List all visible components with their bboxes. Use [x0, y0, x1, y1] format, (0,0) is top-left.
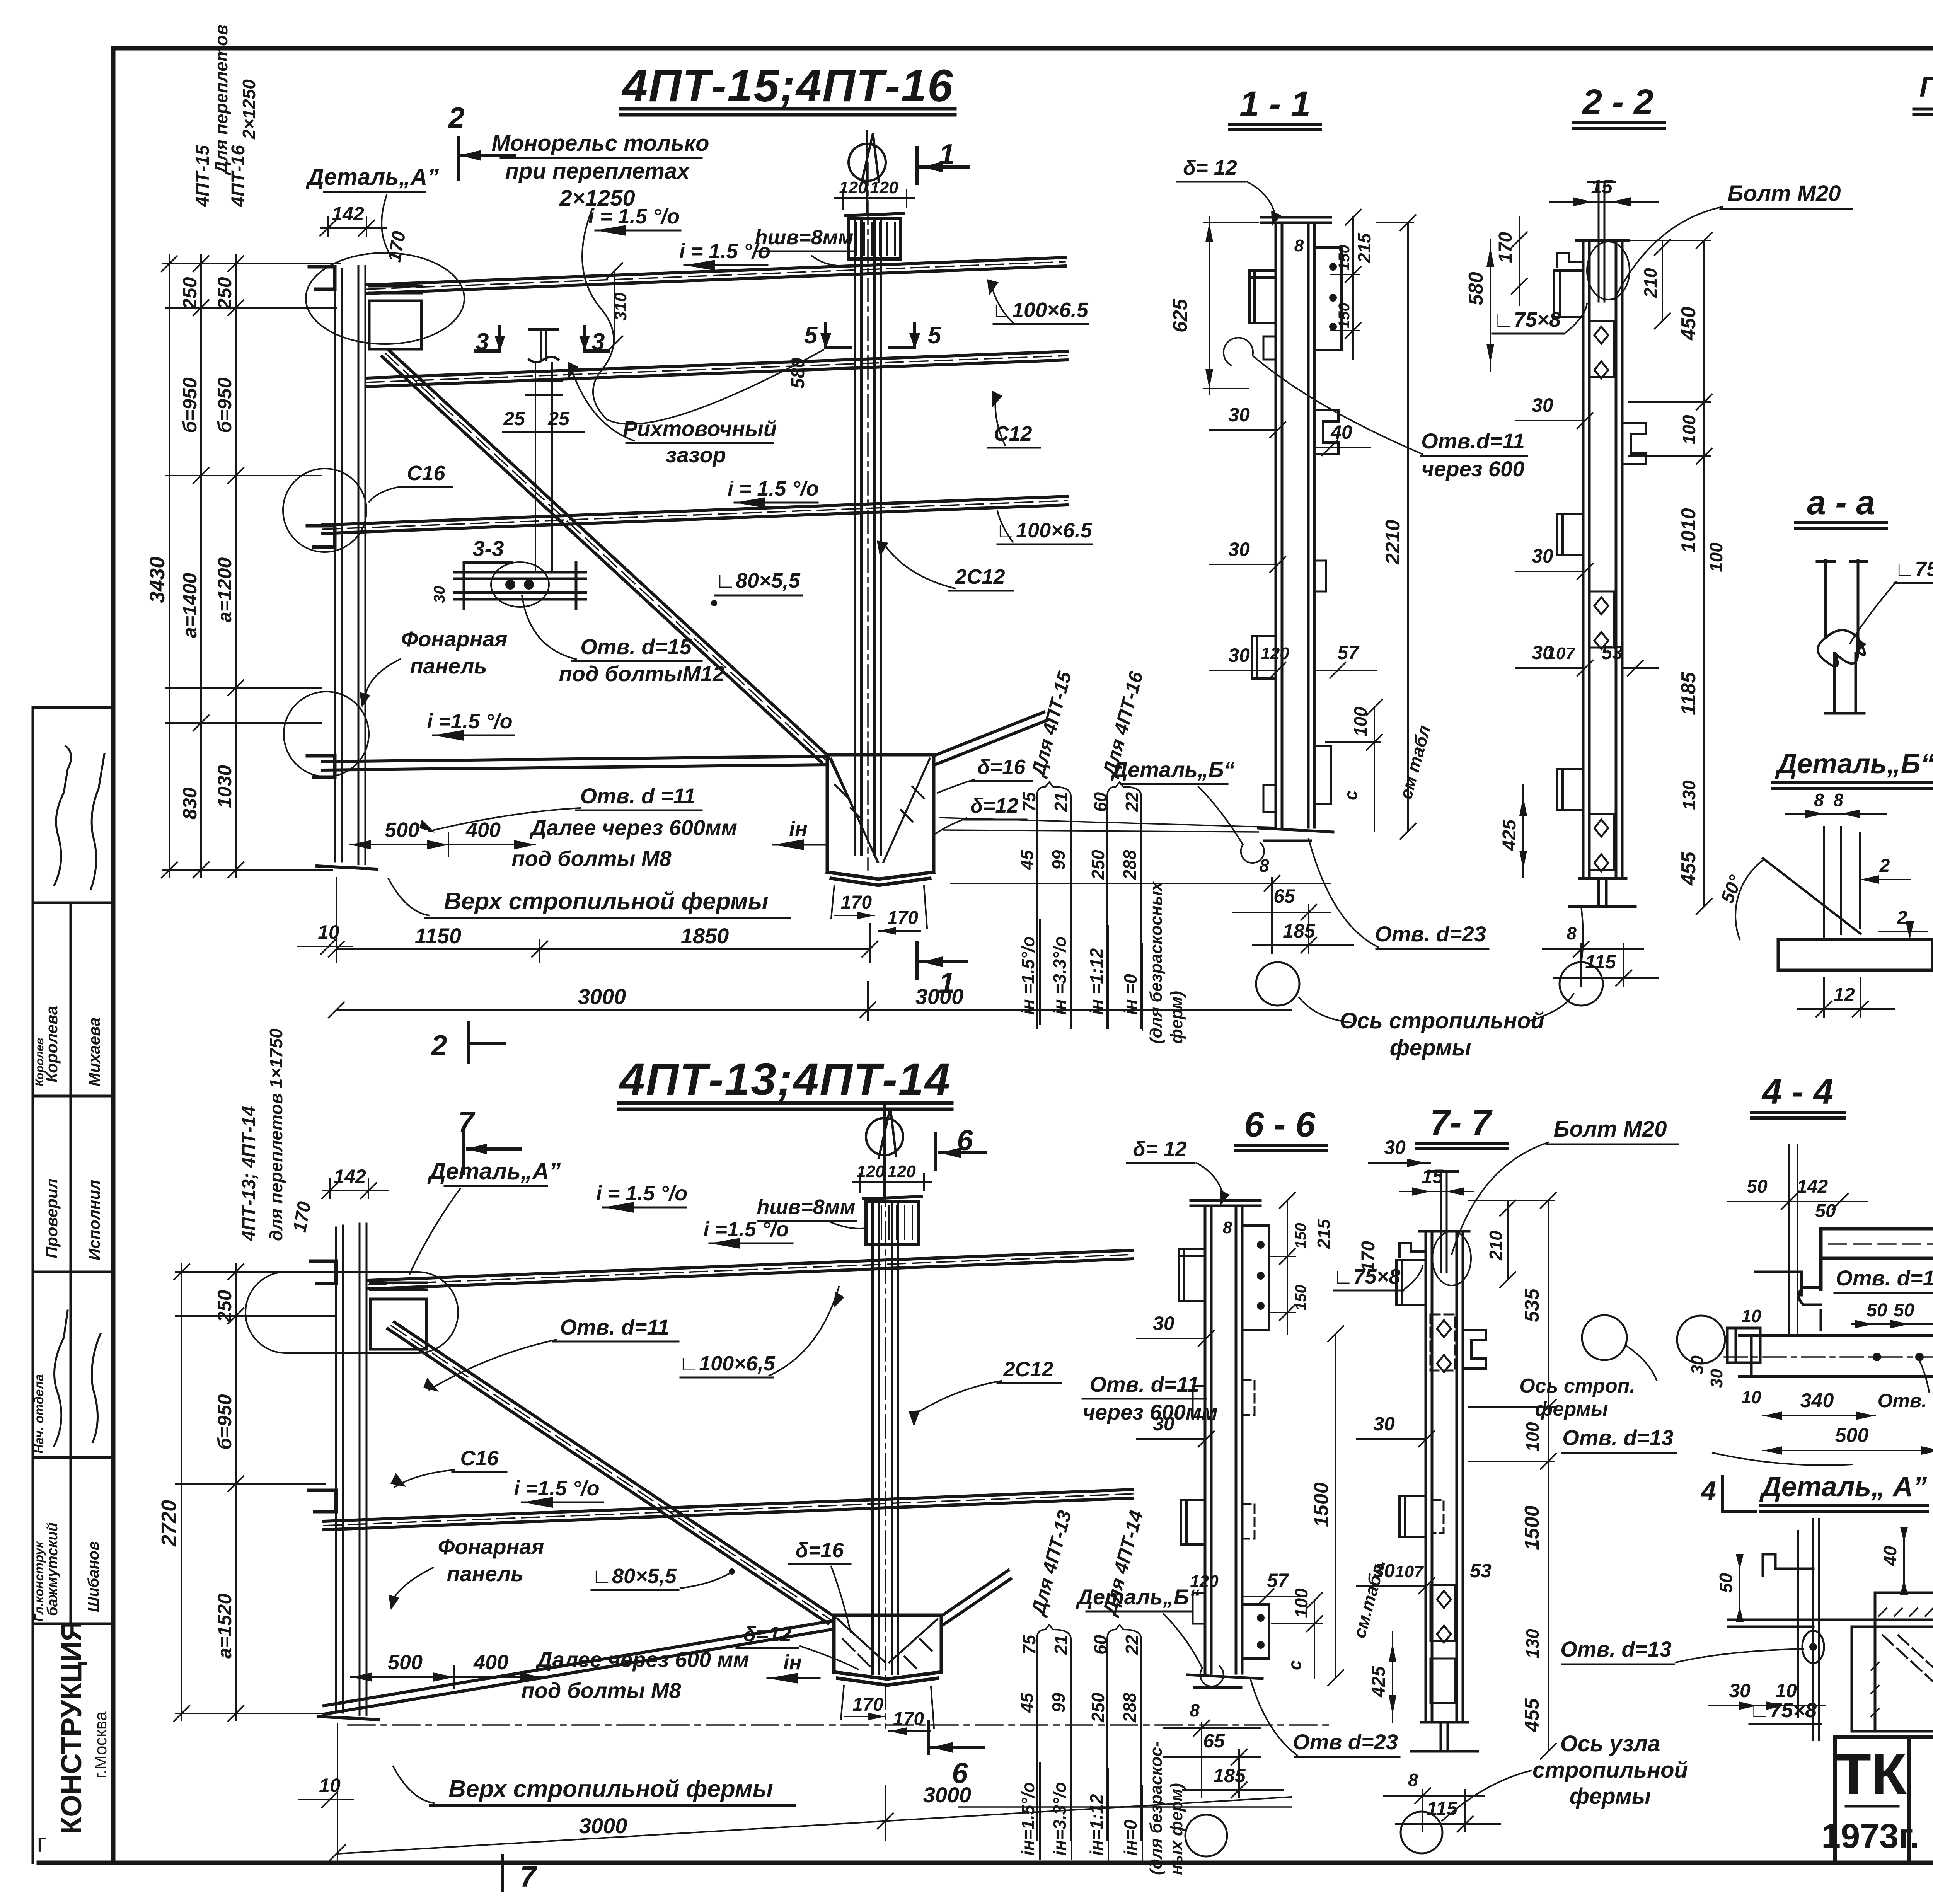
- svg-text:iн =1.5°/о: iн =1.5°/о: [1018, 936, 1038, 1015]
- svg-text:625: 625: [1169, 298, 1192, 332]
- svg-text:10: 10: [1741, 1306, 1761, 1326]
- svg-text:45: 45: [1017, 1692, 1037, 1713]
- dim 1500 (6-6): [1328, 1326, 1343, 1686]
- svg-text:500: 500: [388, 1651, 423, 1674]
- bolt crosses below monorail: [526, 363, 562, 571]
- panel mid angle clip (drawing 2): [309, 1490, 336, 1512]
- a-a post: [1817, 561, 1867, 713]
- svg-text:8: 8: [1408, 1770, 1418, 1790]
- svg-text:25: 25: [547, 408, 570, 430]
- svg-text:50: 50: [1867, 1300, 1887, 1321]
- svg-text:1850: 1850: [681, 924, 729, 948]
- axis circle (1-1): [1256, 962, 1299, 1006]
- svg-text:3430: 3430: [146, 557, 169, 603]
- svg-text:iн =1:12: iн =1:12: [1086, 948, 1106, 1015]
- mid callout circle: [283, 469, 366, 552]
- svg-text:2: 2: [430, 1029, 447, 1062]
- 4-4 channel beam top: [1821, 1229, 1933, 1289]
- svg-text:с: с: [1285, 1660, 1305, 1670]
- monorail I-beam block (drawing 2): [863, 1197, 921, 1244]
- lantern panel vertical member: [317, 266, 377, 869]
- right plate small (1-1): [1314, 561, 1326, 591]
- svg-text:57: 57: [1337, 642, 1360, 663]
- svg-text:панель: панель: [410, 654, 487, 678]
- svg-text:Деталь„Б“: Деталь„Б“: [1774, 748, 1933, 779]
- svg-text:142: 142: [332, 203, 364, 225]
- svg-text:С16: С16: [460, 1447, 499, 1470]
- 4-4 bolt dots on plate: [1873, 1353, 1881, 1361]
- fan bracket boxes (drawing 2): [1037, 1625, 1141, 1840]
- svg-text:580: 580: [1465, 272, 1487, 305]
- svg-text:8: 8: [1814, 790, 1824, 810]
- svg-text:Деталь„А”: Деталь„А”: [305, 164, 439, 190]
- bottom plate with bolts (6-6): [1242, 1604, 1269, 1659]
- svg-text:4 - 4: 4 - 4: [1761, 1072, 1833, 1111]
- svg-text:Болт М20: Болт М20: [1727, 181, 1841, 206]
- svg-text:фермы: фермы: [1390, 1035, 1471, 1060]
- svg-text:i =1.5 °/о: i =1.5 °/о: [427, 710, 512, 733]
- svg-text:5: 5: [928, 322, 942, 349]
- svg-text:Отв d=23: Отв d=23: [1293, 1730, 1398, 1754]
- right dashed plate (6-6): [1242, 1380, 1255, 1415]
- svg-text:40: 40: [1880, 1546, 1900, 1566]
- left angle bracket (7-7): [1396, 1243, 1426, 1305]
- svg-text:12: 12: [1833, 984, 1855, 1006]
- svg-text:425: 425: [1499, 819, 1520, 851]
- 4-4 vertical plate below channel: [1755, 1258, 1821, 1330]
- svg-text:30: 30: [1228, 539, 1250, 560]
- svg-text:7- 7: 7- 7: [1430, 1103, 1493, 1142]
- svg-text:б=950: б=950: [214, 377, 235, 433]
- svg-text:50: 50: [1747, 1176, 1768, 1197]
- svg-text:(для безраскосных: (для безраскосных: [1147, 881, 1166, 1044]
- svg-text:1 - 1: 1 - 1: [1239, 84, 1311, 124]
- svg-text:3-3: 3-3: [473, 536, 504, 561]
- left small plate low (6-6): [1193, 1593, 1205, 1624]
- svg-text:150: 150: [1292, 1285, 1309, 1311]
- svg-text:Ось узла: Ось узла: [1560, 1731, 1660, 1756]
- svg-text:Проверил: Проверил: [43, 1178, 61, 1258]
- svg-text:δ= 12: δ= 12: [1133, 1137, 1187, 1161]
- svg-text:ных ферм): ных ферм): [1167, 1783, 1186, 1875]
- svg-text:δ=12: δ=12: [743, 1623, 792, 1646]
- svg-text:Рихтовочный: Рихтовочный: [623, 416, 777, 441]
- svg-text:∟75 ×8: ∟75 ×8: [1894, 557, 1933, 581]
- svg-text:под болтыМ12: под болтыМ12: [559, 661, 725, 686]
- svg-text:i =1.5 °/о: i =1.5 °/о: [514, 1477, 599, 1500]
- svg-text:1030: 1030: [214, 765, 235, 808]
- 4-4 horizontal plate: [1740, 1336, 1933, 1376]
- right diamonds bolts (2-2): [1594, 327, 1608, 871]
- svg-text:Нач. отдела: Нач. отдела: [32, 1374, 46, 1454]
- svg-text:107: 107: [1546, 644, 1576, 663]
- svg-text:107: 107: [1395, 1562, 1424, 1581]
- bolt shank (7-7): [1440, 1171, 1442, 1272]
- bolt ellipse callout (2-2): [1587, 242, 1630, 300]
- svg-text:8: 8: [1567, 923, 1577, 943]
- svg-text:δ=12: δ=12: [970, 794, 1019, 817]
- panel mid angle clip: [307, 526, 335, 547]
- monorail I-beam block at column top: [846, 213, 904, 259]
- dim 2210 (1-1): [1376, 215, 1416, 839]
- svg-text:фермы: фермы: [1570, 1784, 1651, 1809]
- svg-text:панель: панель: [447, 1561, 523, 1586]
- svg-text:Шибанов: Шибанов: [85, 1541, 102, 1612]
- svg-text:iн: iн: [789, 817, 808, 840]
- svg-text:130: 130: [1679, 780, 1699, 810]
- svg-text:с: с: [1341, 790, 1361, 800]
- 4-4 left end connection: [1727, 1328, 1760, 1376]
- svg-text:Деталь„А”: Деталь„А”: [427, 1158, 561, 1184]
- right chain 215 150 150 (1-1): [1331, 210, 1361, 360]
- svg-text:60: 60: [1090, 1635, 1110, 1655]
- svg-text:Деталь„Б“: Деталь„Б“: [1076, 1585, 1200, 1609]
- svg-text:10: 10: [1741, 1387, 1761, 1407]
- panel top angle clip (drawing 2): [310, 1261, 336, 1284]
- svg-text:4ПТ-15: 4ПТ-15: [193, 145, 213, 207]
- bottom base (2-2): [1570, 878, 1635, 907]
- gusset internal diagonals: [831, 759, 930, 862]
- svg-text:185: 185: [1283, 920, 1316, 942]
- svg-text:185: 185: [1213, 1765, 1246, 1786]
- detail A callout ellipse (drawing 2, stadium shape): [245, 1272, 458, 1353]
- svg-text:Деталь„Б“: Деталь„Б“: [1111, 757, 1235, 782]
- svg-text:170: 170: [1495, 232, 1516, 263]
- svg-text:4: 4: [1700, 1476, 1716, 1506]
- right diamonds (7-7): [1437, 1320, 1451, 1643]
- svg-text:hшв=8мм: hшв=8мм: [755, 226, 853, 249]
- dim 120 120 (drawing 2): [852, 1173, 932, 1193]
- svg-text:Верх стропильной фермы: Верх стропильной фермы: [448, 1776, 773, 1802]
- svg-text:120: 120: [1261, 644, 1289, 663]
- svg-text:1010: 1010: [1677, 508, 1700, 553]
- svg-text:Далее через 600мм: Далее через 600мм: [529, 815, 737, 840]
- svg-text:под болты М8: под болты М8: [511, 846, 672, 871]
- svg-text:δ= 12: δ= 12: [1183, 156, 1237, 179]
- svg-text:30: 30: [1153, 1313, 1174, 1334]
- svg-text:Фонарная: Фонарная: [401, 627, 507, 651]
- svg-text:Отв. d=11: Отв. d=11: [1089, 1372, 1199, 1396]
- svg-text:iн=1.5°/о: iн=1.5°/о: [1018, 1782, 1038, 1856]
- svg-text:1150: 1150: [415, 924, 461, 948]
- apex gusset box (drawing 2): [834, 1615, 941, 1685]
- svg-text:30: 30: [1384, 1137, 1406, 1158]
- svg-text:а - а: а - а: [1807, 483, 1875, 522]
- long alignment line pair at ferma top level: [939, 818, 1330, 883]
- svg-text:б=950: б=950: [179, 377, 201, 433]
- svg-text:Исполнил: Исполнил: [85, 1180, 103, 1260]
- detail B bottom slab: [1778, 939, 1933, 970]
- right bracket boxes (2-2): [1589, 321, 1614, 377]
- bottom dim row 1150 1850: [329, 878, 878, 963]
- svg-text:iн =3.3°/о: iн =3.3°/о: [1050, 936, 1070, 1015]
- svg-text:а=1400: а=1400: [179, 573, 201, 638]
- dim 120 120 above I-beam: [835, 189, 914, 209]
- svg-text:30: 30: [1532, 394, 1553, 416]
- svg-text:340: 340: [1800, 1389, 1834, 1412]
- svg-text:4ПТ-13; 4ПТ-14: 4ПТ-13; 4ПТ-14: [239, 1106, 259, 1241]
- left cleats (7-7): [1399, 1496, 1426, 1537]
- svg-text:стропильной: стропильной: [1532, 1757, 1688, 1783]
- svg-text:250: 250: [214, 1290, 235, 1323]
- svg-text:i = 1.5 °/о: i = 1.5 °/о: [596, 1182, 687, 1205]
- bottom dim row 3000 3000 (drawing 2): [330, 1724, 1291, 1861]
- svg-text:∟80×5,5: ∟80×5,5: [715, 569, 801, 592]
- beam B2 (drawing 2): [324, 1490, 1133, 1530]
- svg-text:30: 30: [1729, 1680, 1751, 1701]
- svg-text:10: 10: [1775, 1680, 1797, 1701]
- svg-text:120: 120: [870, 178, 898, 197]
- left stamp column: [33, 707, 113, 1863]
- svg-text:30: 30: [1228, 644, 1250, 666]
- detail A hatch ticks on gusset: [1871, 1608, 1933, 1716]
- dim 100, c, sm tabl (1-1): [1326, 700, 1382, 831]
- svg-text:57: 57: [1267, 1570, 1289, 1591]
- svg-text:Отв. d=23: Отв. d=23: [1375, 922, 1486, 946]
- svg-text:ТК: ТК: [1836, 1741, 1907, 1806]
- svg-text:30: 30: [1373, 1413, 1395, 1435]
- dim 625 (1-1): [1204, 216, 1258, 394]
- svg-text:1: 1: [939, 966, 955, 999]
- svg-text:С16: С16: [407, 462, 445, 485]
- I-beam hatching: [856, 222, 895, 255]
- svg-text:Монорельс только: Монорельс только: [491, 131, 709, 156]
- top beam B1 (drawing 2): [368, 1250, 1133, 1289]
- svg-text:30: 30: [1153, 1413, 1174, 1435]
- right clip (7-7): [1463, 1330, 1486, 1369]
- svg-text:210: 210: [1640, 268, 1660, 298]
- svg-text:iн=1:12: iн=1:12: [1086, 1794, 1106, 1856]
- svg-text:бажмутский: бажмутский: [44, 1522, 61, 1616]
- apex gusset box: [827, 755, 934, 885]
- svg-text:7: 7: [458, 1106, 476, 1138]
- right dim chain (7-7): [1469, 1193, 1556, 1759]
- svg-text:Отв. d=15: Отв. d=15: [580, 634, 692, 659]
- svg-text:2210: 2210: [1382, 520, 1404, 565]
- svg-text:1973г.: 1973г.: [1821, 1817, 1919, 1856]
- svg-text:170: 170: [1358, 1241, 1379, 1272]
- bottom bolt box (7-7): [1430, 1659, 1455, 1703]
- svg-text:30: 30: [1707, 1369, 1726, 1388]
- svg-text:8: 8: [1294, 236, 1304, 255]
- right chain 215 150 150 (6-6): [1269, 1193, 1295, 1334]
- svg-text:5: 5: [804, 322, 818, 349]
- svg-text:6: 6: [952, 1757, 968, 1789]
- svg-text:г.Москва: г.Москва: [91, 1711, 110, 1778]
- svg-text:iн =0: iн =0: [1120, 974, 1140, 1015]
- svg-text:∟100×6.5: ∟100×6.5: [992, 298, 1089, 322]
- svg-text:1185: 1185: [1677, 672, 1700, 715]
- svg-text:170: 170: [887, 908, 918, 928]
- section 2-2 column: [1577, 240, 1629, 878]
- svg-text:6 - 6: 6 - 6: [1244, 1105, 1316, 1144]
- a-a weld blob: [1818, 630, 1865, 666]
- svg-text:60: 60: [1090, 792, 1110, 812]
- svg-text:535: 535: [1521, 1288, 1543, 1322]
- svg-text:830: 830: [179, 787, 201, 820]
- left dim chain (drawing 2): [174, 1264, 340, 1721]
- svg-text:2С12: 2С12: [1003, 1358, 1053, 1381]
- bottom beam B3 left (drawing 2): [324, 1621, 834, 1714]
- lantern panel vertical member (drawing 2): [318, 1224, 378, 1720]
- svg-text:hшв=8мм: hшв=8мм: [757, 1195, 855, 1219]
- svg-text:Фонарная: Фонарная: [438, 1534, 544, 1559]
- svg-text:через 600мм: через 600мм: [1082, 1400, 1218, 1424]
- svg-text:2720: 2720: [157, 1500, 181, 1547]
- svg-text:Отв. d=13: Отв. d=13: [1560, 1637, 1672, 1661]
- svg-text:75: 75: [1019, 791, 1039, 812]
- left bracket (6-6): [1179, 1249, 1205, 1301]
- svg-text:Отв. d=11: Отв. d=11: [1836, 1266, 1933, 1290]
- callout circle on 3-3: [491, 562, 549, 607]
- svg-text:Геометрические схемы пан: Геометрические схемы панелей: [1919, 71, 1933, 103]
- svg-text:2: 2: [1879, 856, 1890, 876]
- left small plate (1-1 mid): [1263, 336, 1276, 360]
- svg-text:зазор: зазор: [666, 443, 726, 467]
- svg-text:210: 210: [1486, 1231, 1506, 1261]
- bolt ellipse callout (7-7): [1432, 1231, 1471, 1285]
- svg-text:для переплетов 1×1750: для переплетов 1×1750: [266, 1028, 286, 1241]
- svg-text:2С12: 2С12: [955, 565, 1005, 588]
- axis circle (6-6): [1185, 1815, 1227, 1856]
- svg-text:2: 2: [1897, 908, 1907, 928]
- right plate with bolts (1-1): [1314, 247, 1342, 350]
- svg-text:215: 215: [1314, 1219, 1334, 1249]
- svg-text:215: 215: [1354, 233, 1374, 263]
- svg-text:Гл.конструк: Гл.конструк: [32, 1541, 46, 1622]
- svg-text:50: 50: [1815, 1201, 1836, 1221]
- panel lower angle clip: [307, 756, 335, 777]
- svg-text:8: 8: [1190, 1700, 1200, 1720]
- detail A vertical panel lines: [1798, 1519, 1819, 1740]
- svg-text:142: 142: [334, 1166, 366, 1187]
- detail A bolt mark: [1802, 1631, 1824, 1663]
- svg-text:∟80×5,5: ∟80×5,5: [591, 1565, 677, 1588]
- svg-text:Отв. d =11: Отв. d =11: [580, 784, 696, 808]
- detail A callout ellipse: [306, 253, 464, 344]
- svg-text:288: 288: [1120, 850, 1140, 880]
- svg-text:Королев: Королев: [33, 1038, 46, 1086]
- svg-text:2×1250: 2×1250: [239, 79, 259, 140]
- svg-text:iн=0: iн=0: [1120, 1820, 1140, 1856]
- svg-text:450: 450: [1677, 307, 1700, 341]
- svg-text:75: 75: [1019, 1634, 1039, 1655]
- svg-text:б=950: б=950: [214, 1394, 235, 1450]
- svg-text:4ПТ-15;4ПТ-16: 4ПТ-15;4ПТ-16: [622, 60, 953, 111]
- svg-text:400: 400: [465, 818, 501, 842]
- gusset internal diagonals (drawing 2): [838, 1619, 938, 1668]
- diagonal brace (drawing 2): [388, 1322, 835, 1623]
- top beam B1: [367, 257, 1065, 293]
- svg-text:7: 7: [520, 1860, 537, 1893]
- svg-text:500: 500: [385, 818, 419, 842]
- svg-text:iн=3.3°/о: iн=3.3°/о: [1050, 1782, 1070, 1856]
- svg-text:при переплетах: при переплетах: [505, 159, 691, 184]
- fan bracket boxes (drawing 1): [1037, 782, 1141, 1028]
- svg-text:1500: 1500: [1310, 1482, 1333, 1527]
- stamp signatures row 1: [54, 746, 104, 889]
- small monorail I-profile between 3-3 marks: [529, 329, 558, 362]
- left dim chain: extension lines: [162, 255, 340, 878]
- callout circle near os strop: [1582, 1315, 1627, 1360]
- svg-text:142: 142: [1797, 1176, 1828, 1197]
- svg-text:3000: 3000: [579, 1814, 627, 1838]
- svg-text:8: 8: [1259, 856, 1269, 876]
- svg-text:170: 170: [893, 1709, 924, 1729]
- svg-text:150: 150: [1336, 245, 1353, 271]
- svg-text:через 600: через 600: [1422, 457, 1525, 481]
- lower callout circle: [284, 692, 369, 777]
- svg-text:ферм): ферм): [1167, 991, 1186, 1044]
- svg-text:21: 21: [1051, 1635, 1071, 1655]
- right clip low (1-1): [1314, 746, 1331, 804]
- svg-text:65: 65: [1273, 885, 1295, 907]
- svg-text:Далее через 600 мм: Далее через 600 мм: [535, 1647, 749, 1672]
- svg-text:50: 50: [1894, 1300, 1914, 1321]
- svg-text:(для безраскос-: (для безраскос-: [1147, 1741, 1166, 1875]
- bottom beam right stub: [934, 712, 1046, 764]
- stamp row 4 signatures: [54, 1311, 101, 1446]
- svg-text:Для переплетов: Для переплетов: [211, 24, 231, 176]
- svg-text:100: 100: [1291, 1588, 1311, 1618]
- svg-text:22: 22: [1122, 1635, 1142, 1655]
- svg-text:45: 45: [1017, 849, 1037, 870]
- svg-text:Михаева: Михаева: [85, 1018, 103, 1086]
- detail B bevel line 50deg: [1763, 858, 1860, 934]
- svg-text:400: 400: [473, 1651, 508, 1674]
- svg-text:Отв.d=11: Отв.d=11: [1421, 429, 1525, 453]
- svg-text:г: г: [37, 1827, 47, 1858]
- svg-text:150: 150: [1292, 1223, 1309, 1249]
- svg-text:КОНСТРУКЦИЯ: КОНСТРУКЦИЯ: [55, 1621, 87, 1834]
- svg-text:250: 250: [1088, 1693, 1108, 1723]
- bottom beam B4 left: [323, 756, 827, 770]
- svg-text:21: 21: [1051, 792, 1071, 812]
- svg-text:150: 150: [1336, 303, 1353, 329]
- svg-text:500: 500: [1835, 1424, 1869, 1447]
- svg-text:1500: 1500: [1521, 1505, 1543, 1550]
- dim 100 c sm tabl (6-6): [1272, 1593, 1322, 1678]
- svg-text:115: 115: [1427, 1798, 1458, 1819]
- svg-text:δ=16: δ=16: [796, 1539, 844, 1562]
- column (drawing 2): [873, 1203, 898, 1674]
- diagonal brace L80x5.5: [382, 350, 828, 762]
- svg-text:δ=16: δ=16: [977, 755, 1026, 779]
- svg-text:2 - 2: 2 - 2: [1582, 82, 1653, 122]
- svg-text:100: 100: [1706, 542, 1726, 572]
- beam B2: [366, 351, 1067, 387]
- column (vertical): [855, 220, 881, 854]
- svg-text:100: 100: [1522, 1422, 1543, 1452]
- svg-text:30: 30: [1228, 404, 1250, 426]
- svg-text:170: 170: [841, 892, 872, 913]
- svg-text:120: 120: [887, 1162, 916, 1181]
- bottom beam right stub (drawing 2): [941, 1570, 1011, 1624]
- svg-text:∟75×8: ∟75×8: [1749, 1699, 1817, 1722]
- svg-text:а=1520: а=1520: [214, 1594, 235, 1659]
- svg-text:50: 50: [1716, 1573, 1736, 1593]
- svg-text:4ПТ-13;4ПТ-14: 4ПТ-13;4ПТ-14: [619, 1054, 950, 1105]
- left cleat (6-6): [1181, 1500, 1205, 1544]
- svg-text:∟75×8: ∟75×8: [1493, 308, 1561, 331]
- beam B3: [323, 496, 1067, 534]
- detail A diagonal dashed: [1883, 1635, 1933, 1731]
- svg-text:Отв. d=11: Отв. d=11: [560, 1315, 669, 1339]
- detail A gusset box with hatch: [1852, 1593, 1933, 1731]
- svg-text:30: 30: [1373, 1560, 1395, 1582]
- section 7-7 column: [1420, 1231, 1469, 1721]
- svg-text:Отв. d=13: Отв. d=13: [1562, 1425, 1674, 1450]
